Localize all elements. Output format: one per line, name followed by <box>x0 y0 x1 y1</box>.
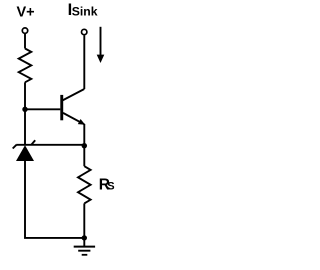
svg-text:Sink: Sink <box>72 5 98 19</box>
svg-text:V+: V+ <box>17 5 35 21</box>
svg-text:S: S <box>107 181 114 193</box>
